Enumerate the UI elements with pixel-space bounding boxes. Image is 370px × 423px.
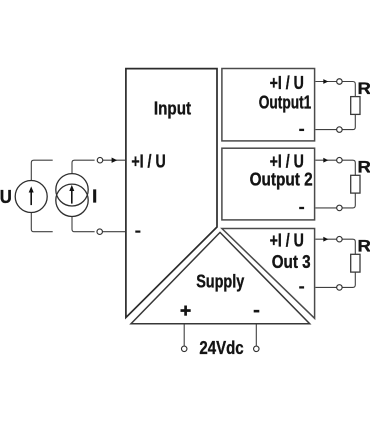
svg-text:+I / U: +I / U — [131, 152, 165, 172]
svg-text:+I / U: +I / U — [270, 73, 304, 93]
svg-text:+I / U: +I / U — [270, 231, 304, 251]
svg-text:Output 2: Output 2 — [250, 170, 313, 190]
svg-text:Input: Input — [154, 98, 191, 119]
svg-text:U: U — [0, 186, 12, 207]
svg-text:R: R — [358, 79, 370, 98]
svg-text:I: I — [92, 185, 97, 206]
svg-text:Output1: Output1 — [259, 93, 312, 113]
svg-text:Supply: Supply — [196, 272, 244, 292]
svg-text:Out 3: Out 3 — [272, 252, 311, 272]
svg-text:R: R — [358, 237, 370, 256]
svg-text:24Vdc: 24Vdc — [199, 338, 243, 358]
svg-text:+I / U: +I / U — [270, 152, 304, 172]
svg-text:R: R — [358, 158, 370, 177]
